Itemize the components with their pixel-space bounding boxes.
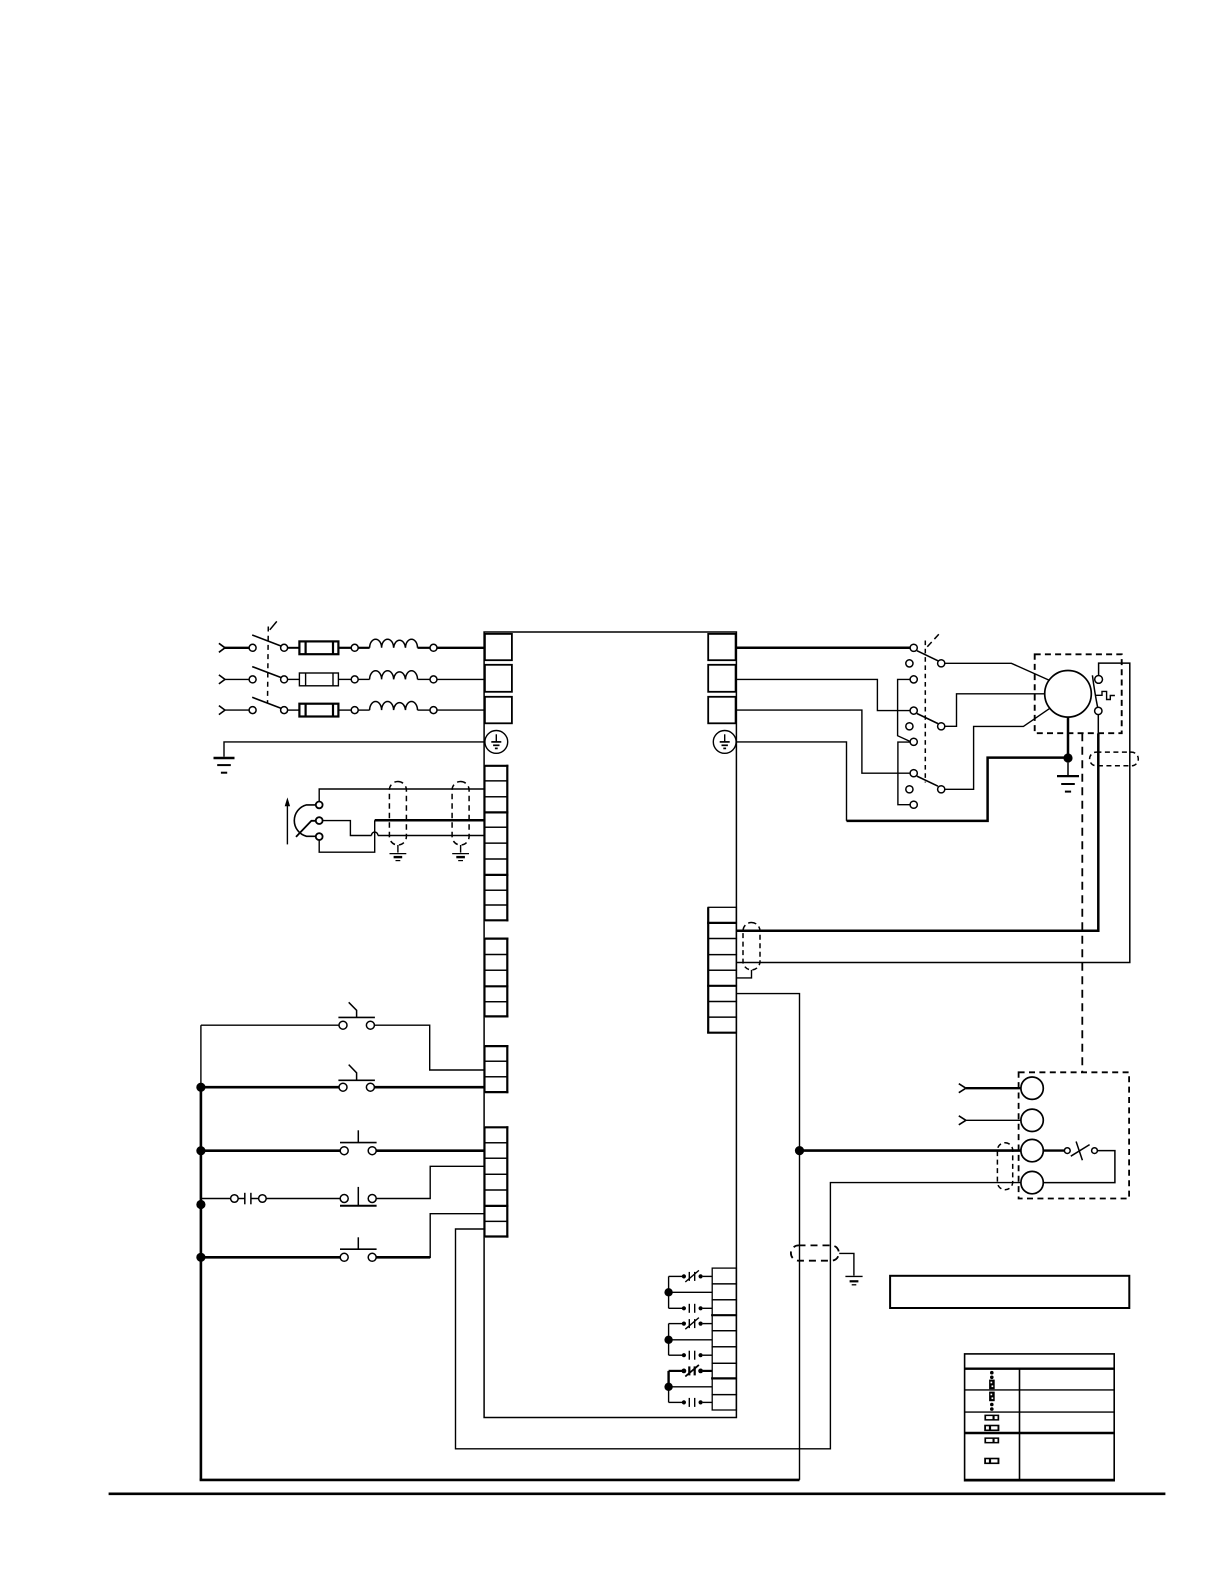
cable shield (thermostat leads at motor): [1090, 752, 1139, 766]
wire: [358, 647, 369, 649]
motor M1: [1045, 671, 1092, 718]
wire (bold): [966, 1087, 1021, 1089]
node: [351, 644, 358, 651]
ground terminal (input side): [485, 731, 508, 754]
S2 section 2 contact top: [910, 707, 917, 714]
disconnect switch S1 gang line: [268, 621, 277, 703]
relay K2 common riser wire: [668, 1324, 670, 1356]
motor M1 dashed enclosure: [1035, 654, 1122, 733]
common bus wire: [200, 1025, 202, 1087]
junction: [196, 1253, 205, 1262]
wire: [338, 678, 351, 680]
terminal T/L3: [485, 697, 512, 724]
wire PE run (bold): [847, 758, 1066, 821]
wire PB3 riser to terminal: [430, 1214, 485, 1258]
wire thermostat bottom lead: [1097, 715, 1099, 734]
disconnect switch S1 contact: [281, 707, 288, 714]
wire: [378, 835, 486, 837]
ground (shield 1): [390, 854, 407, 861]
relay K3 common riser wire (fault, bold): [667, 1371, 669, 1387]
node: [351, 676, 358, 683]
junction: [196, 1083, 205, 1092]
aux thermal contact wire (bold): [1043, 1149, 1064, 1151]
terminal U/T1: [708, 634, 735, 660]
node L1 input terminal: [219, 643, 225, 652]
wire: [225, 678, 250, 680]
S2 section 1 contact low: [910, 676, 917, 683]
wire PE to input ground: [224, 742, 485, 757]
relay K1 common riser wire: [668, 1276, 670, 1308]
shield 1 drain wire: [397, 845, 399, 853]
junction: [664, 1383, 672, 1391]
terminal V/T2: [708, 665, 735, 692]
potentiometer RP1 terminal high: [316, 802, 323, 809]
wire PB2 to terminal: [376, 1166, 485, 1198]
legend symbol jumper position 2: [989, 1392, 995, 1411]
relay contact K2 NO: [669, 1351, 713, 1360]
wire S2 spare contact link 2-3: [898, 742, 910, 805]
wire SW2 to terminal (bold): [374, 1086, 485, 1089]
wire: [418, 678, 431, 680]
wire: [338, 709, 351, 711]
wire V to S2: [736, 679, 910, 710]
pushbutton PB2 (stop NC): [340, 1187, 377, 1206]
S2 section 2 common: [938, 723, 945, 730]
disconnect switch S1 contact: [281, 644, 288, 651]
ground terminal (output side): [713, 731, 736, 754]
junction: [664, 1336, 672, 1344]
fuse F1: [299, 641, 338, 654]
node external feed 2: [959, 1116, 966, 1125]
wire pot low via crossover: [319, 820, 375, 852]
wire common bus to aux terminal 3 (bold): [800, 1149, 1021, 1152]
wire S2 to motor phase 2: [945, 694, 1045, 727]
ground (supply earth): [214, 758, 235, 773]
TB3 terminal strip (run/stop): [485, 1046, 507, 1092]
wire (shielded analog pair): [375, 819, 486, 822]
shield drain wire: [839, 1253, 854, 1275]
wire W to S2: [736, 710, 910, 773]
aux thermal contact: [1064, 1142, 1097, 1161]
junction: [196, 1200, 205, 1209]
TB5 terminal strip (motor thermostat input): [708, 907, 736, 1032]
legend table column divider: [1019, 1369, 1021, 1481]
wire S2 spare contact link 1-2: [898, 679, 911, 741]
cable shield (bus risers): [791, 1245, 839, 1260]
cable shield 2: [452, 782, 469, 846]
motor thermostat contact top: [1095, 676, 1103, 684]
fuse F2: [299, 673, 338, 686]
wire K2 common to terminal: [669, 1339, 713, 1341]
wire K3 common to terminal: [669, 1386, 713, 1388]
wire: [225, 647, 250, 649]
wire TB5 to common bus riser: [736, 994, 799, 1480]
wire S2 to motor phase 3: [945, 708, 1051, 789]
aux terminal 3: [1021, 1139, 1043, 1161]
aux unit dashed enclosure: [1019, 1072, 1130, 1198]
S2 section 2 blade: [917, 714, 938, 724]
S2 section 1 contact mid: [906, 660, 913, 667]
disconnect switch S1 contact: [249, 644, 256, 651]
inductor L2 (line reactor): [370, 671, 418, 680]
disconnect switch S1 blade: [252, 697, 281, 708]
legend table row rule: [965, 1411, 1115, 1413]
aux terminal 4: [1021, 1171, 1043, 1193]
cable shield (aux leads): [997, 1143, 1012, 1190]
node L3 input terminal: [219, 706, 225, 715]
aux terminal 2: [1021, 1109, 1043, 1131]
interlock contact (aux): [201, 1193, 266, 1205]
S2 section 2 contact mid: [906, 723, 913, 730]
legend table bottom rule (bold): [965, 1479, 1115, 1481]
legend table row rule: [965, 1389, 1115, 1391]
inductor L1 (line reactor): [370, 639, 418, 648]
wire S2 to motor phase 1: [945, 663, 1050, 680]
aux terminal 1: [1021, 1077, 1043, 1099]
shield drain wire to TB5: [736, 970, 751, 978]
motor thermostat blade: [1092, 675, 1097, 707]
wire: [338, 647, 351, 649]
switch SW2 (rev/stop maintained, bold circuit): [201, 1065, 375, 1092]
node L2 input terminal: [219, 675, 225, 684]
S2 section 1 blade: [917, 651, 938, 661]
wire: [266, 1198, 340, 1200]
potentiometer RP1 element: [294, 805, 316, 836]
wire: [358, 709, 369, 711]
shield 2 drain wire: [460, 845, 462, 853]
node: [430, 644, 437, 651]
wire pot wiper to terminal: [323, 821, 372, 836]
fuse F3: [299, 704, 338, 717]
drive unit U1 enclosure: [484, 632, 736, 1418]
S2 section 3 contact mid: [906, 786, 913, 793]
node: [351, 707, 358, 714]
motor thermostat contact bottom: [1095, 707, 1102, 714]
wire U to S2 (bold): [736, 647, 910, 650]
wire PB1 to terminal (bold): [376, 1149, 485, 1152]
legend table header rule: [965, 1367, 1115, 1369]
legend table row rule (bold): [965, 1432, 1115, 1434]
relay contact K2 NC: [669, 1318, 713, 1330]
common bus wire (bold): [200, 1087, 203, 1480]
increase direction arrow: [285, 797, 290, 844]
S2 section 3 common: [938, 786, 945, 793]
S2 section 3 contact low: [910, 801, 917, 808]
legend symbol slide switch right: [984, 1437, 999, 1443]
wire PB3 to terminal (bold segment): [376, 1256, 430, 1259]
S2 section 1 contact top: [910, 644, 917, 651]
wire crossover hop: [372, 832, 378, 836]
wire PE from drive to motor: [736, 742, 846, 821]
inductor L3 (line reactor): [370, 702, 418, 711]
wire: [358, 678, 369, 680]
legend symbol slide switch left: [984, 1425, 999, 1431]
wire thermostat bottom to TB5 (bold): [736, 733, 1098, 931]
wire pot high to terminal: [319, 789, 485, 802]
potentiometer RP1 terminal low: [316, 833, 323, 840]
potentiometer RP1 wiper arm: [296, 821, 316, 837]
S2 section 3 contact top: [910, 770, 917, 777]
legend symbol slide switch left: [984, 1458, 999, 1464]
terminal W/T3: [708, 697, 735, 724]
S2 section 2 contact low: [910, 738, 917, 745]
potentiometer RP1 wiper terminal: [316, 817, 323, 824]
TB1 control terminal strip: [485, 766, 507, 921]
wire: [288, 647, 300, 649]
TB6 relay output terminal strip: [712, 1268, 736, 1410]
legend symbol slide switch right: [984, 1415, 999, 1421]
wire: [437, 647, 485, 649]
wire: [225, 709, 250, 711]
pushbutton PB3 (jog NO, bold circuit): [201, 1237, 377, 1261]
legend symbol jumper position 1: [989, 1371, 995, 1389]
ground (shield 2): [452, 854, 469, 861]
relay contact K3 NO: [669, 1398, 713, 1407]
TB2 terminal strip (unused): [485, 939, 507, 1017]
ground (motor frame): [1057, 763, 1079, 792]
node: [430, 676, 437, 683]
legend table frame: [965, 1354, 1115, 1481]
page footer rule: [109, 1493, 1166, 1496]
relay contact K1 NC: [669, 1270, 713, 1282]
mechanical link (thermostat to aux box): [1081, 733, 1083, 1072]
pushbutton PB1 (run NO, bold circuit): [201, 1130, 377, 1154]
ground (shield): [845, 1276, 862, 1284]
wire thermostat top to TB5: [736, 663, 1129, 962]
junction: [1063, 753, 1072, 762]
disconnect switch S1 contact: [249, 707, 256, 714]
TB4 terminal strip (jog/reset): [485, 1127, 507, 1236]
terminal R/L1: [485, 634, 512, 660]
junction: [795, 1146, 804, 1155]
switch SW1 (fwd/stop maintained): [201, 1002, 375, 1029]
motor thermostat heater element: [1096, 691, 1115, 699]
S2 section 1 common: [938, 660, 945, 667]
wire motor frame to ground (bold): [1067, 717, 1070, 758]
wire: [437, 709, 485, 711]
wire: [288, 709, 300, 711]
fault annunciation label box: [890, 1276, 1129, 1308]
cable shield 1: [389, 782, 406, 846]
junction: [196, 1146, 205, 1155]
disconnect switch S1 contact: [249, 676, 256, 683]
disconnect switch S1 blade: [252, 635, 281, 646]
wire: [288, 678, 300, 680]
wire: [418, 647, 431, 649]
common bus bottom run (bold): [200, 1479, 800, 1482]
disconnect switch S1 contact: [281, 676, 288, 683]
node external feed 1: [959, 1084, 966, 1093]
junction: [664, 1288, 672, 1296]
wire aux contact loop: [1043, 1151, 1115, 1183]
wire SW1 to terminal: [374, 1025, 485, 1070]
relay contact K3 NC (fault, bold): [669, 1365, 713, 1377]
S2 gang line: [925, 634, 939, 783]
disconnect switch S1 blade: [252, 667, 281, 678]
wire: [437, 678, 485, 680]
S2 section 3 blade: [917, 776, 938, 786]
node: [430, 707, 437, 714]
relay K3 riser lower segment: [668, 1387, 670, 1403]
cable shield (thermostat leads at drive): [743, 923, 760, 970]
wire: [966, 1119, 1021, 1121]
terminal S/L2: [485, 665, 512, 692]
wire: [418, 709, 431, 711]
wire TB4 to aux terminal 4: [456, 1183, 1021, 1449]
relay contact K1 NO: [669, 1304, 713, 1313]
wire K1 common to terminal: [669, 1291, 713, 1293]
